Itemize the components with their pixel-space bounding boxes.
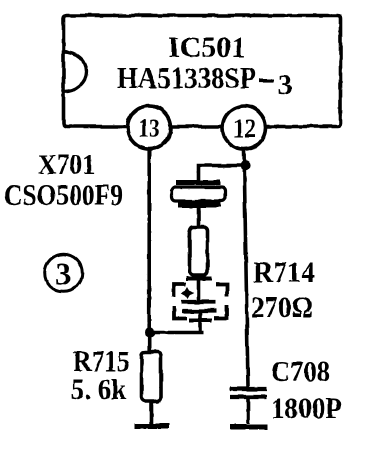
svg-text:1800P: 1800P — [271, 392, 342, 425]
svg-text:3: 3 — [55, 256, 71, 292]
capacitor C708 plate bottom — [230, 395, 267, 399]
wire R714 to trimmer — [197, 275, 201, 302]
svg-text:CSO500F9: CSO500F9 — [4, 177, 123, 212]
wire C708 to ground — [246, 398, 250, 425]
op-amp U1 IC501 body — [64, 16, 341, 127]
pin 12 — [223, 106, 266, 149]
wire R715 to ground — [150, 401, 154, 424]
wire branch to resonator — [199, 166, 246, 182]
resistor R714 — [190, 227, 208, 275]
svg-text:5. 6k: 5. 6k — [71, 373, 126, 406]
label HA51338SP-3 — [117, 60, 292, 101]
adjustment arrow diamond — [181, 287, 194, 299]
pin 13 — [128, 106, 171, 149]
wire to left junction — [150, 331, 204, 335]
wire resonator to R714 — [197, 207, 201, 227]
node junction left — [145, 328, 155, 338]
ground left — [134, 424, 169, 429]
ground right — [230, 425, 268, 430]
capacitor plate bottom (built-in) — [182, 309, 217, 313]
svg-text:270Ω: 270Ω — [251, 291, 313, 324]
wire pin13 down — [147, 149, 151, 353]
svg-text:3: 3 — [278, 70, 292, 101]
trimmer electrode tick top — [186, 277, 212, 281]
node circled 3 — [45, 254, 83, 292]
node junction right — [240, 160, 250, 170]
resonator X701 — [172, 183, 226, 206]
wire pin12 down — [244, 150, 248, 388]
wire capacitor down — [198, 311, 202, 333]
dashed box of built-in capacitor — [174, 284, 227, 319]
resistor R715 — [142, 352, 162, 401]
svg-text:R714: R714 — [253, 256, 315, 289]
svg-text:HA51338SP: HA51338SP — [117, 60, 256, 95]
trimmer electrode tick bottom — [189, 319, 212, 323]
capacitor plate top (built-in) — [181, 300, 216, 304]
svg-text:13: 13 — [138, 114, 160, 143]
capacitor C708 plate top — [230, 387, 267, 391]
svg-text:C708: C708 — [271, 356, 330, 388]
svg-text:12: 12 — [233, 114, 256, 143]
